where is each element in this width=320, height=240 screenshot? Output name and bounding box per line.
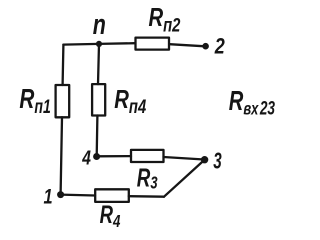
wire diagonal up to node 3: [164, 161, 204, 197]
wire R4 to diagonal corner: [129, 195, 164, 198]
svg-text:1: 1: [44, 185, 53, 208]
terminal 2 dot: [202, 43, 209, 50]
resistor Rп2: [136, 38, 170, 50]
node n junction dot: [96, 41, 102, 47]
resistor R3: [131, 150, 164, 162]
wire node 1 to R4: [61, 193, 95, 196]
node 1 junction dot: [57, 191, 64, 198]
resistor Rп1: [56, 85, 70, 117]
node 3 terminal dot: [201, 156, 208, 163]
wire top horizontal from left corner through node n to Rп2: [63, 43, 135, 44]
wire middle vertical lower (Rп4 to node 4): [96, 116, 99, 157]
svg-text:n: n: [93, 9, 106, 41]
resistor Rп4: [92, 84, 105, 115]
wire middle vertical upper (node n to Rп4): [98, 44, 99, 84]
wire left vertical upper (corner to Rп1): [61, 45, 64, 85]
wire R3 to node 3: [164, 157, 203, 159]
wire node 4 to R3: [97, 155, 131, 157]
wire left vertical lower (Rп1 to node 1): [61, 117, 62, 194]
svg-text:3: 3: [213, 148, 222, 174]
svg-text:2: 2: [214, 35, 225, 59]
svg-text:4: 4: [81, 147, 91, 169]
wire Rп2 to terminal 2: [170, 44, 204, 46]
resistor R4: [95, 189, 129, 202]
node 4 junction dot: [93, 153, 100, 160]
